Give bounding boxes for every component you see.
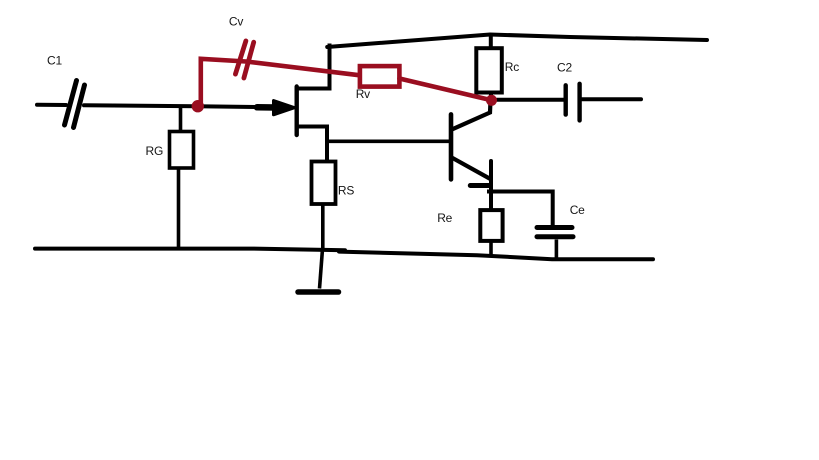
emitter bbox=[452, 158, 490, 179]
capacitor Cv bbox=[229, 15, 254, 78]
ground bbox=[298, 249, 339, 292]
transistor Q2 BJT bbox=[451, 101, 491, 211]
capacitor Ce bbox=[537, 203, 585, 257]
resistor Rv bbox=[356, 66, 492, 101]
svg-text:C2: C2 bbox=[557, 61, 572, 75]
svg-text:Rc: Rc bbox=[505, 60, 519, 74]
resistor RS bbox=[312, 162, 355, 249]
wire source to base bbox=[327, 140, 450, 144]
collector bbox=[453, 101, 491, 130]
node junction dot left bbox=[192, 100, 204, 112]
emitter arrow bar bbox=[470, 183, 490, 188]
gate arrowhead bbox=[274, 101, 295, 115]
wire input left bbox=[37, 103, 66, 107]
node junction dot right bbox=[486, 95, 497, 106]
wire Cv red branch bbox=[201, 59, 360, 104]
resistor Re bbox=[437, 210, 502, 257]
bottom rail right segment bbox=[339, 252, 653, 260]
resistor Rc bbox=[476, 37, 519, 101]
capacitor C1 bbox=[47, 54, 85, 128]
svg-text:RG: RG bbox=[146, 144, 164, 158]
svg-text:Ce: Ce bbox=[570, 203, 585, 217]
svg-text:Cv: Cv bbox=[229, 15, 243, 29]
bottom rail left segment bbox=[35, 249, 345, 251]
wire C1 to gate arrow bbox=[84, 105, 282, 107]
top rail bbox=[327, 35, 707, 48]
svg-text:Re: Re bbox=[437, 211, 452, 225]
svg-text:RS: RS bbox=[338, 184, 354, 198]
resistor RG bbox=[146, 107, 194, 249]
svg-text:Rv: Rv bbox=[356, 87, 370, 101]
svg-text:C1: C1 bbox=[47, 54, 62, 68]
source wire bbox=[297, 127, 327, 163]
transistor Q1 JFET bbox=[257, 46, 330, 163]
base bar bbox=[449, 114, 454, 179]
wire emitter to Ce bbox=[489, 192, 553, 225]
channel bbox=[295, 87, 299, 136]
emitter node vertical bbox=[489, 161, 493, 210]
capacitor C2 bbox=[497, 61, 641, 121]
drain wire bbox=[297, 46, 330, 89]
